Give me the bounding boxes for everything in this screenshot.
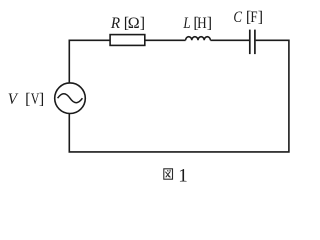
svg-text:F: F [250, 9, 257, 26]
svg-text:]: ] [140, 15, 145, 32]
svg-text:H: H [197, 15, 207, 32]
svg-text:[: [ [25, 91, 30, 108]
svg-text:C: C [233, 9, 242, 26]
svg-text:]: ] [39, 91, 44, 108]
sine wave inside source [58, 94, 83, 103]
label L [H] [183, 15, 213, 32]
label V [V] [8, 91, 44, 108]
capacitor C plates [249, 30, 251, 54]
svg-text:1: 1 [178, 166, 188, 187]
inductor L [186, 37, 211, 41]
resistor R [110, 35, 145, 46]
wire: left vertical below source, bottom wire, right vertical, top-right to capacitor [69, 40, 289, 152]
caption 図 (drawn glyph) [164, 169, 173, 179]
wire: inductor to capacitor [210, 39, 249, 41]
wire: top-left segment and left vertical down to source top [69, 40, 110, 83]
svg-text:]: ] [207, 15, 212, 32]
svg-text:R: R [110, 15, 120, 32]
voltage source V circle [55, 83, 86, 114]
svg-text:]: ] [258, 9, 263, 26]
svg-text:L: L [183, 15, 191, 32]
label R [Ω] [110, 15, 145, 32]
label C [F] [233, 9, 263, 26]
wire: resistor to inductor [145, 39, 186, 41]
svg-text:Ω: Ω [128, 15, 140, 32]
